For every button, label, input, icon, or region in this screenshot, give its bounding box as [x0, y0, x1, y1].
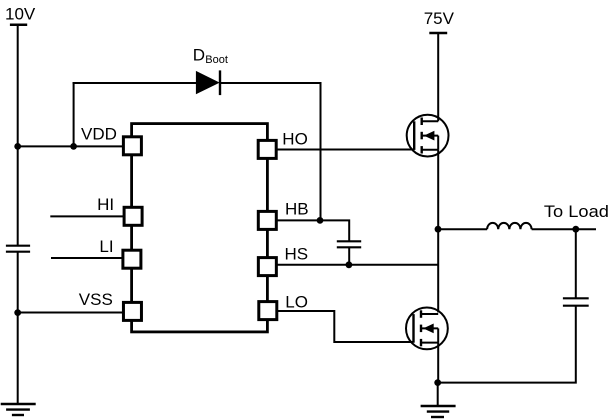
capacitor C1 input bypass — [6, 246, 30, 252]
10V supply — [5, 5, 36, 25]
transistor Q1 high-side MOSFET — [407, 115, 449, 157]
wire LO to low-side gate — [276, 311, 413, 342]
node HS cap junction — [346, 261, 353, 268]
pin HS — [258, 245, 308, 276]
wire 75V rail to high-side drain — [437, 33, 439, 121]
wire HI stub — [50, 215, 124, 217]
capacitor C_out output — [563, 298, 589, 305]
svg-text:VSS: VSS — [79, 290, 113, 309]
node switch node inductor junction — [435, 226, 442, 233]
wire VSS (rail to VSS pin) — [18, 312, 124, 314]
ground right — [421, 406, 456, 417]
wire bootstrap branch vertical up — [73, 82, 75, 146]
wire LI stub — [51, 257, 123, 259]
wire left rail lower (cap to ground) — [17, 252, 19, 404]
pin HB — [258, 200, 308, 230]
wire switch node to inductor — [438, 228, 487, 230]
wire ground stub — [437, 383, 439, 406]
svg-text:To Load: To Load — [544, 202, 609, 221]
pin LI — [99, 237, 140, 268]
wire HS to switch node — [276, 264, 438, 266]
svg-text:HI: HI — [97, 195, 114, 214]
svg-text:VDD: VDD — [81, 124, 117, 143]
pin LO — [259, 292, 308, 319]
node VDD rail junction — [14, 143, 21, 150]
ground left — [1, 404, 36, 415]
pin VSS — [79, 290, 142, 320]
svg-text:Boot: Boot — [205, 54, 228, 66]
svg-text:HS: HS — [285, 245, 309, 264]
wire load junction down to output cap — [575, 229, 577, 298]
transistor Q2 low-side MOSFET — [406, 308, 448, 350]
svg-text:HB: HB — [285, 200, 309, 219]
svg-text:D: D — [193, 45, 205, 64]
pin HO — [258, 129, 308, 158]
pin HI — [97, 195, 142, 225]
wire diode cathode to HB branch corner — [220, 83, 321, 220]
wire left rail upper (10V to cap) — [17, 25, 19, 246]
IC U1 body — [132, 124, 268, 332]
wire inductor to load stub — [532, 228, 596, 230]
svg-text:75V: 75V — [424, 9, 455, 28]
svg-text:10V: 10V — [5, 5, 36, 24]
node load junction — [572, 226, 579, 233]
wire Q2 source down to ground junction — [437, 343, 439, 383]
wire bootstrap cap bottom to HS wire — [348, 247, 350, 264]
wire bootstrap top to diode anode — [73, 82, 196, 84]
node bootstrap branch junction — [70, 143, 77, 150]
capacitor C_Boot bootstrap — [337, 241, 361, 247]
node HB junction — [317, 217, 324, 224]
svg-text:LI: LI — [99, 237, 113, 256]
inductor L1 — [487, 223, 531, 229]
wire output cap bottom to return — [438, 306, 576, 383]
wire VDD (rail to VDD pin) — [18, 145, 123, 147]
svg-text:HO: HO — [282, 129, 308, 148]
wire switch node vertical (Q1 source to Q2 drain) — [437, 150, 439, 313]
svg-text:LO: LO — [285, 292, 308, 311]
75V supply — [424, 9, 455, 33]
wire HO to high-side gate — [276, 149, 414, 151]
node source ground junction — [434, 379, 441, 386]
diode D_Boot — [193, 45, 228, 95]
node VSS rail junction — [14, 309, 21, 316]
wire HB to bootstrap cap corner — [276, 220, 349, 241]
pin VDD — [81, 124, 141, 154]
